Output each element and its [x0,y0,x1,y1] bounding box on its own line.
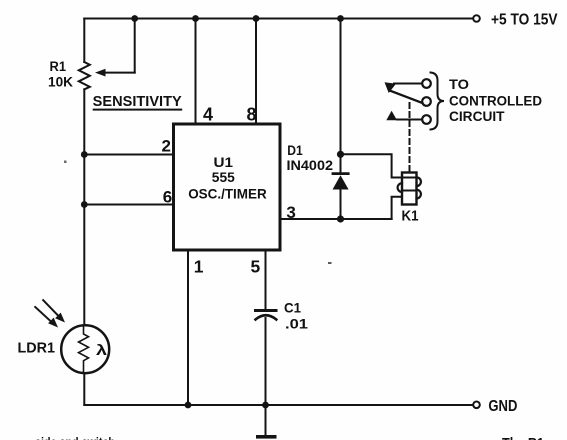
svg-text:C1: C1 [284,300,301,315]
svg-text:SENSITIVITY: SENSITIVITY [93,94,182,110]
svg-text:5: 5 [251,256,261,276]
relay K1 coil [398,173,421,205]
wire pin 1 [187,250,189,405]
switch contact terminal circle top [422,79,431,88]
svg-text:3: 3 [286,203,295,222]
wire pin 2 [84,154,173,156]
switch movable arm [390,91,422,103]
svg-text:TO: TO [449,77,469,92]
svg-text:555: 555 [212,169,235,185]
svg-text:IN4002: IN4002 [287,157,334,173]
wire pin 4 [195,19,197,124]
svg-text:OSC./TIMER: OSC./TIMER [188,186,267,202]
wire diode branch top [340,19,342,173]
svg-text:side and switch: side and switch [35,435,115,440]
node junction dot diode top [337,151,344,158]
photoresistor LDR1 element [61,325,109,373]
svg-text:10K: 10K [48,75,73,90]
svg-text:4: 4 [203,104,213,124]
switch NC contact arrow [385,82,397,93]
resistor R1 potentiometer element [79,19,135,90]
wire left rail upper [83,19,85,63]
wire relay coil bottom lead [392,197,402,219]
label SENSITIVITY underline [93,109,183,111]
node junction dot top-rail diode branch [337,15,344,22]
node junction dot pin2 branch [81,151,88,158]
ground [256,405,277,439]
svg-text:+5 TO 15V: +5 TO 15V [491,12,558,29]
node junction dot cap-bottom [262,402,269,409]
svg-text:The R1: The R1 [502,435,544,440]
wire relay coil top lead [341,154,403,177]
svg-text:K1: K1 [402,207,419,224]
node junction dot pin6 branch [81,201,88,208]
op-amp U1 555 timer body [174,124,281,250]
wire pin 8 [255,19,257,124]
switch NC contact line [394,83,422,85]
capacitor C1 element [256,311,277,406]
svg-text:U1: U1 [214,154,234,170]
node junction dot diode bottom [337,215,344,222]
artifact speck near pin3 [328,262,332,264]
switch NO contact line [397,119,422,121]
LDR light arrow 1 [43,300,65,322]
node junction dot pin1-bottom [185,402,192,409]
wire top rail [84,18,473,20]
wire left rail middle [83,89,85,325]
wire dashed mechanical linkage [409,103,411,172]
svg-text:1: 1 [194,256,204,276]
terminal circle GND [473,402,480,409]
wire bottom rail [84,404,473,406]
wire pin 6 [84,204,173,206]
artifact speck left rail [64,161,67,164]
brace to controlled circuit [431,73,445,130]
svg-text:LDR1: LDR1 [18,341,56,357]
node junction dot wiper-top [131,15,138,22]
svg-text:D1: D1 [287,142,303,158]
svg-text:R1: R1 [50,59,67,74]
switch NO contact arrow [386,111,397,121]
svg-text:2: 2 [162,137,171,156]
node junction dot pin8-top [253,15,260,22]
svg-text:CIRCUIT: CIRCUIT [449,109,505,124]
switch contact terminal circle bottom [422,115,431,124]
node junction dot pin4-top [192,15,199,22]
wire left rail lower [83,373,85,405]
svg-text:CONTROLLED: CONTROLLED [449,94,542,109]
terminal circle +5 supply [473,15,480,22]
svg-text:.01: .01 [285,317,309,332]
svg-text:6: 6 [163,188,172,207]
diode D1 element [333,174,349,219]
LDR light arrow 2 [35,307,58,328]
svg-text:GND: GND [488,398,517,415]
svg-text:8: 8 [247,104,257,124]
switch contact terminal circle middle [422,97,431,106]
wire pin 5 [265,250,267,309]
wire pin 3 [280,218,392,220]
svg-text:λ: λ [96,342,108,359]
